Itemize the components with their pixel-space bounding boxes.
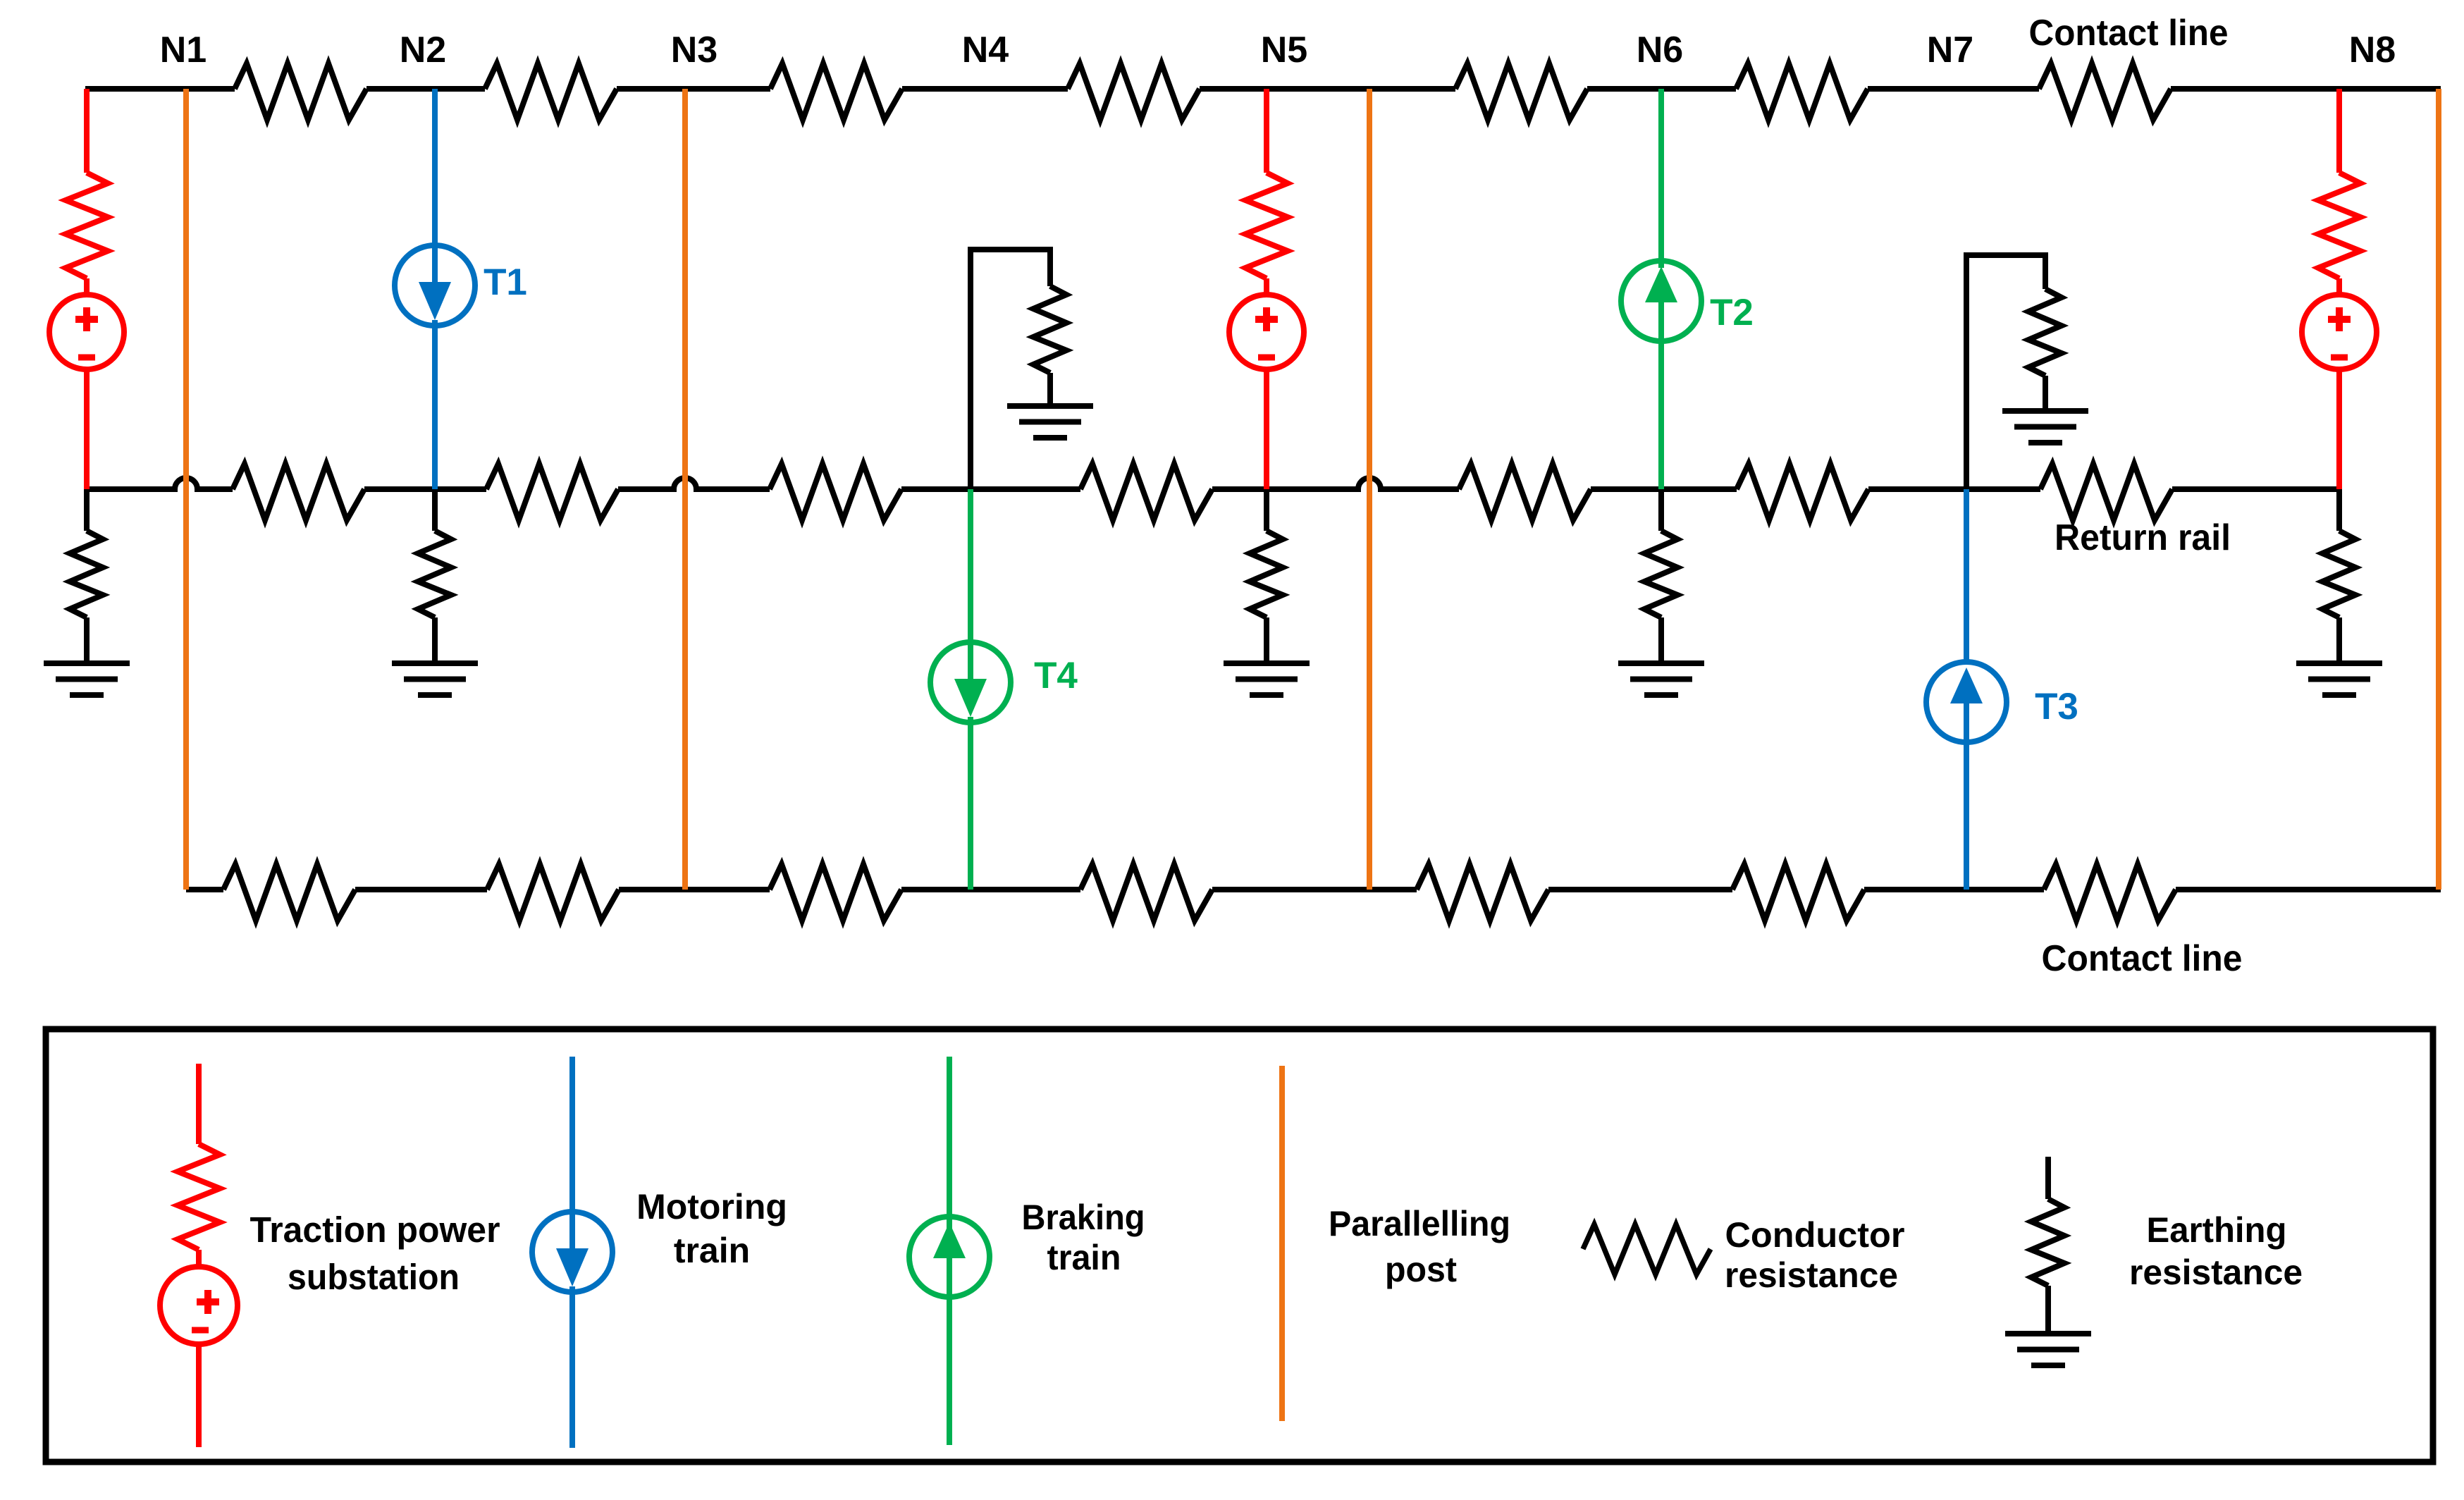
legend: ground symbol bbox=[2005, 1331, 2091, 1336]
earthing resistance at N6 bbox=[1658, 489, 1664, 531]
conductor resistance R12 top bbox=[235, 63, 366, 120]
conductor resistance R12 rail bbox=[233, 464, 364, 520]
braking train T4: wire bbox=[968, 489, 973, 642]
conductor resistance R34 top bbox=[770, 63, 902, 120]
conductor resistance R67 rail bbox=[1737, 464, 1868, 520]
legend: traction power substation symbol bbox=[196, 1064, 202, 1144]
svg-text:Motoring: Motoring bbox=[636, 1187, 787, 1227]
ground at N1 bbox=[44, 660, 130, 666]
earthing resistance at N8 bbox=[2336, 489, 2342, 531]
svg-text:N6: N6 bbox=[1637, 30, 1683, 70]
conductor resistance R12 bottom bbox=[223, 864, 355, 921]
earthing resistance at N1 bbox=[84, 489, 90, 531]
svg-text:T2: T2 bbox=[1710, 292, 1754, 333]
svg-text:resistance: resistance bbox=[1725, 1255, 1898, 1295]
paralleling post at N3 bbox=[682, 89, 688, 890]
paralleling post right of N5 bbox=[1367, 89, 1372, 890]
wire: source to rail TPS1 bbox=[84, 369, 90, 489]
ground at N5 bbox=[1224, 660, 1310, 666]
wire: top contact line bbox=[85, 86, 2441, 92]
svg-text:T4: T4 bbox=[1034, 655, 1078, 696]
paralleling post at N1 bbox=[183, 89, 189, 890]
earthing resistance at N2 bbox=[432, 489, 438, 531]
svg-text:N5: N5 bbox=[1261, 30, 1307, 70]
earthing resistance at N7 (raised) bbox=[1966, 255, 2045, 489]
legend: braking train symbol bbox=[947, 1057, 952, 1445]
conductor resistance R23 rail bbox=[486, 464, 618, 520]
braking train T2: wire bbox=[1658, 89, 1664, 268]
traction power substation TPS1: voltage source bbox=[49, 295, 124, 369]
conductor resistance R78 rail bbox=[2040, 464, 2172, 520]
paralleling post at N8 (right end) bbox=[2436, 89, 2441, 890]
svg-text:train: train bbox=[674, 1231, 750, 1270]
motoring train T3: wire bbox=[1964, 489, 1969, 662]
conductor resistance R34 bottom bbox=[770, 864, 901, 921]
conductor resistance R34 rail bbox=[770, 464, 901, 520]
conductor resistance R78 top bbox=[2039, 63, 2171, 120]
conductor resistance R78 bottom bbox=[2044, 864, 2176, 921]
svg-text:Traction power: Traction power bbox=[250, 1210, 500, 1250]
legend: paralleling post symbol bbox=[1279, 1066, 1285, 1421]
svg-text:Parallelling: Parallelling bbox=[1329, 1204, 1510, 1243]
conductor resistance R56 top bbox=[1455, 63, 1587, 120]
traction power substation TPS1: resistor bbox=[84, 89, 90, 173]
svg-text:Braking: Braking bbox=[1022, 1198, 1145, 1237]
svg-text:Contact line: Contact line bbox=[2029, 13, 2229, 54]
legend: motoring train symbol bbox=[569, 1057, 575, 1248]
svg-text:Contact line: Contact line bbox=[2042, 938, 2243, 979]
ground at N4 bbox=[1007, 403, 1093, 409]
svg-text:N3: N3 bbox=[671, 30, 717, 70]
legend: conductor resistance symbol bbox=[1583, 1224, 1711, 1274]
traction power substation TPS2: resistor bbox=[1264, 89, 1269, 173]
earthing resistance at N4 (raised) bbox=[971, 250, 1050, 489]
svg-text:T3: T3 bbox=[2035, 686, 2078, 727]
braking train T4: current source bbox=[930, 642, 1011, 723]
ground at N2 bbox=[392, 660, 478, 666]
svg-text:N8: N8 bbox=[2349, 30, 2396, 70]
braking train T2: current source bbox=[1621, 261, 1701, 341]
conductor resistance R23 top bbox=[485, 63, 617, 120]
earthing resistance at N5 bbox=[1264, 489, 1269, 531]
svg-text:N4: N4 bbox=[962, 30, 1009, 70]
motoring train T1: wire bbox=[432, 89, 438, 245]
svg-text:Conductor: Conductor bbox=[1725, 1215, 1905, 1255]
wire: source to rail TPS3 bbox=[2336, 369, 2342, 489]
wire: return rail with hops bbox=[85, 478, 2341, 489]
svg-text:post: post bbox=[1385, 1250, 1457, 1289]
motoring train T3: current source bbox=[1926, 662, 2007, 742]
svg-text:train: train bbox=[1047, 1238, 1121, 1277]
conductor resistance R67 top bbox=[1736, 63, 1868, 120]
traction power substation TPS3: voltage source bbox=[2302, 295, 2377, 369]
wire: source to rail TPS2 bbox=[1264, 369, 1269, 489]
svg-text:Earthing: Earthing bbox=[2147, 1210, 2287, 1250]
svg-text:T1: T1 bbox=[483, 262, 527, 303]
traction power substation TPS3: resistor bbox=[2336, 89, 2342, 173]
svg-text:N7: N7 bbox=[1927, 30, 1973, 70]
ground at N7 bbox=[2002, 408, 2088, 414]
conductor resistance R67 bottom bbox=[1732, 864, 1864, 921]
conductor resistance R23 bottom bbox=[487, 864, 619, 921]
motoring train T1: current source bbox=[395, 245, 475, 326]
conductor resistance R56 rail bbox=[1459, 464, 1591, 520]
ground at N8 bbox=[2296, 660, 2382, 666]
conductor resistance R45 rail bbox=[1080, 464, 1212, 520]
svg-text:substation: substation bbox=[288, 1257, 460, 1297]
traction power substation TPS2: voltage source bbox=[1229, 295, 1304, 369]
svg-text:N1: N1 bbox=[160, 30, 207, 70]
conductor resistance R45 top bbox=[1068, 63, 1200, 120]
legend: earthing resistance symbol bbox=[2045, 1157, 2051, 1199]
conductor resistance R56 bottom bbox=[1417, 864, 1548, 921]
legend box bbox=[46, 1029, 2433, 1462]
conductor resistance R45 bottom bbox=[1080, 864, 1212, 921]
wire: bottom contact line bbox=[186, 887, 2441, 892]
ground at N6 bbox=[1618, 660, 1704, 666]
svg-text:resistance: resistance bbox=[2129, 1253, 2303, 1292]
svg-text:Return rail: Return rail bbox=[2055, 517, 2231, 558]
svg-text:N2: N2 bbox=[400, 30, 446, 70]
